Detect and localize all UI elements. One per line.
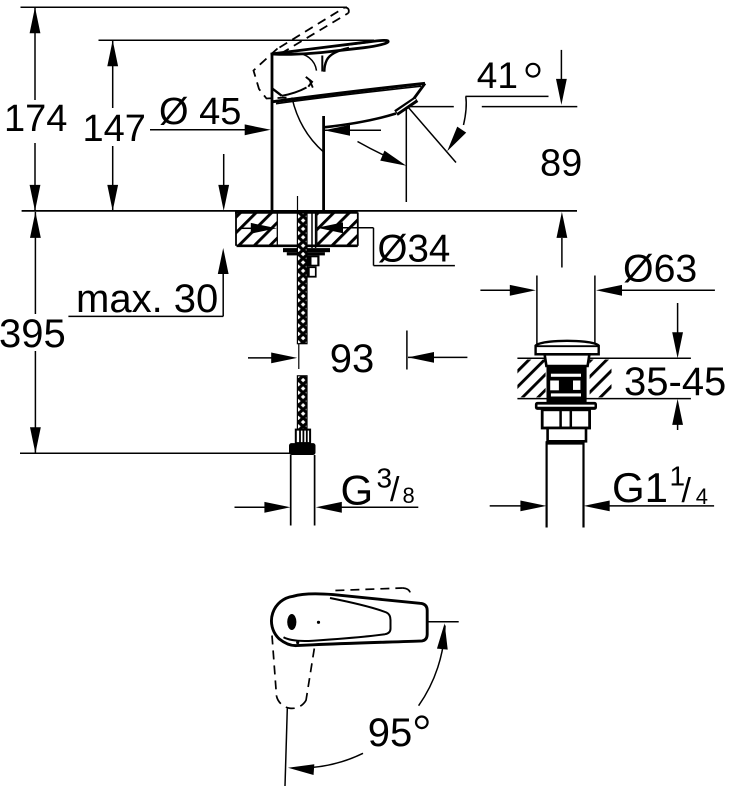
svg-text:/: / bbox=[390, 471, 400, 509]
svg-text:Ø34: Ø34 bbox=[378, 228, 451, 271]
svg-text:max. 30: max. 30 bbox=[76, 277, 218, 321]
svg-text:147: 147 bbox=[83, 108, 146, 150]
svg-text:8: 8 bbox=[403, 483, 415, 508]
svg-text:95: 95 bbox=[368, 711, 413, 755]
svg-text:Ø 45: Ø 45 bbox=[159, 91, 241, 133]
svg-text:G: G bbox=[341, 467, 374, 514]
svg-text:4: 4 bbox=[696, 484, 708, 509]
svg-text:35-45: 35-45 bbox=[624, 360, 726, 404]
svg-text:G1: G1 bbox=[612, 464, 668, 511]
svg-text:395: 395 bbox=[0, 312, 66, 356]
svg-text:174: 174 bbox=[4, 98, 67, 140]
svg-text:/: / bbox=[682, 472, 692, 510]
svg-text:41: 41 bbox=[477, 55, 518, 96]
svg-text:Ø63: Ø63 bbox=[623, 247, 697, 291]
svg-text:93: 93 bbox=[330, 337, 375, 381]
svg-text:89: 89 bbox=[540, 142, 582, 184]
